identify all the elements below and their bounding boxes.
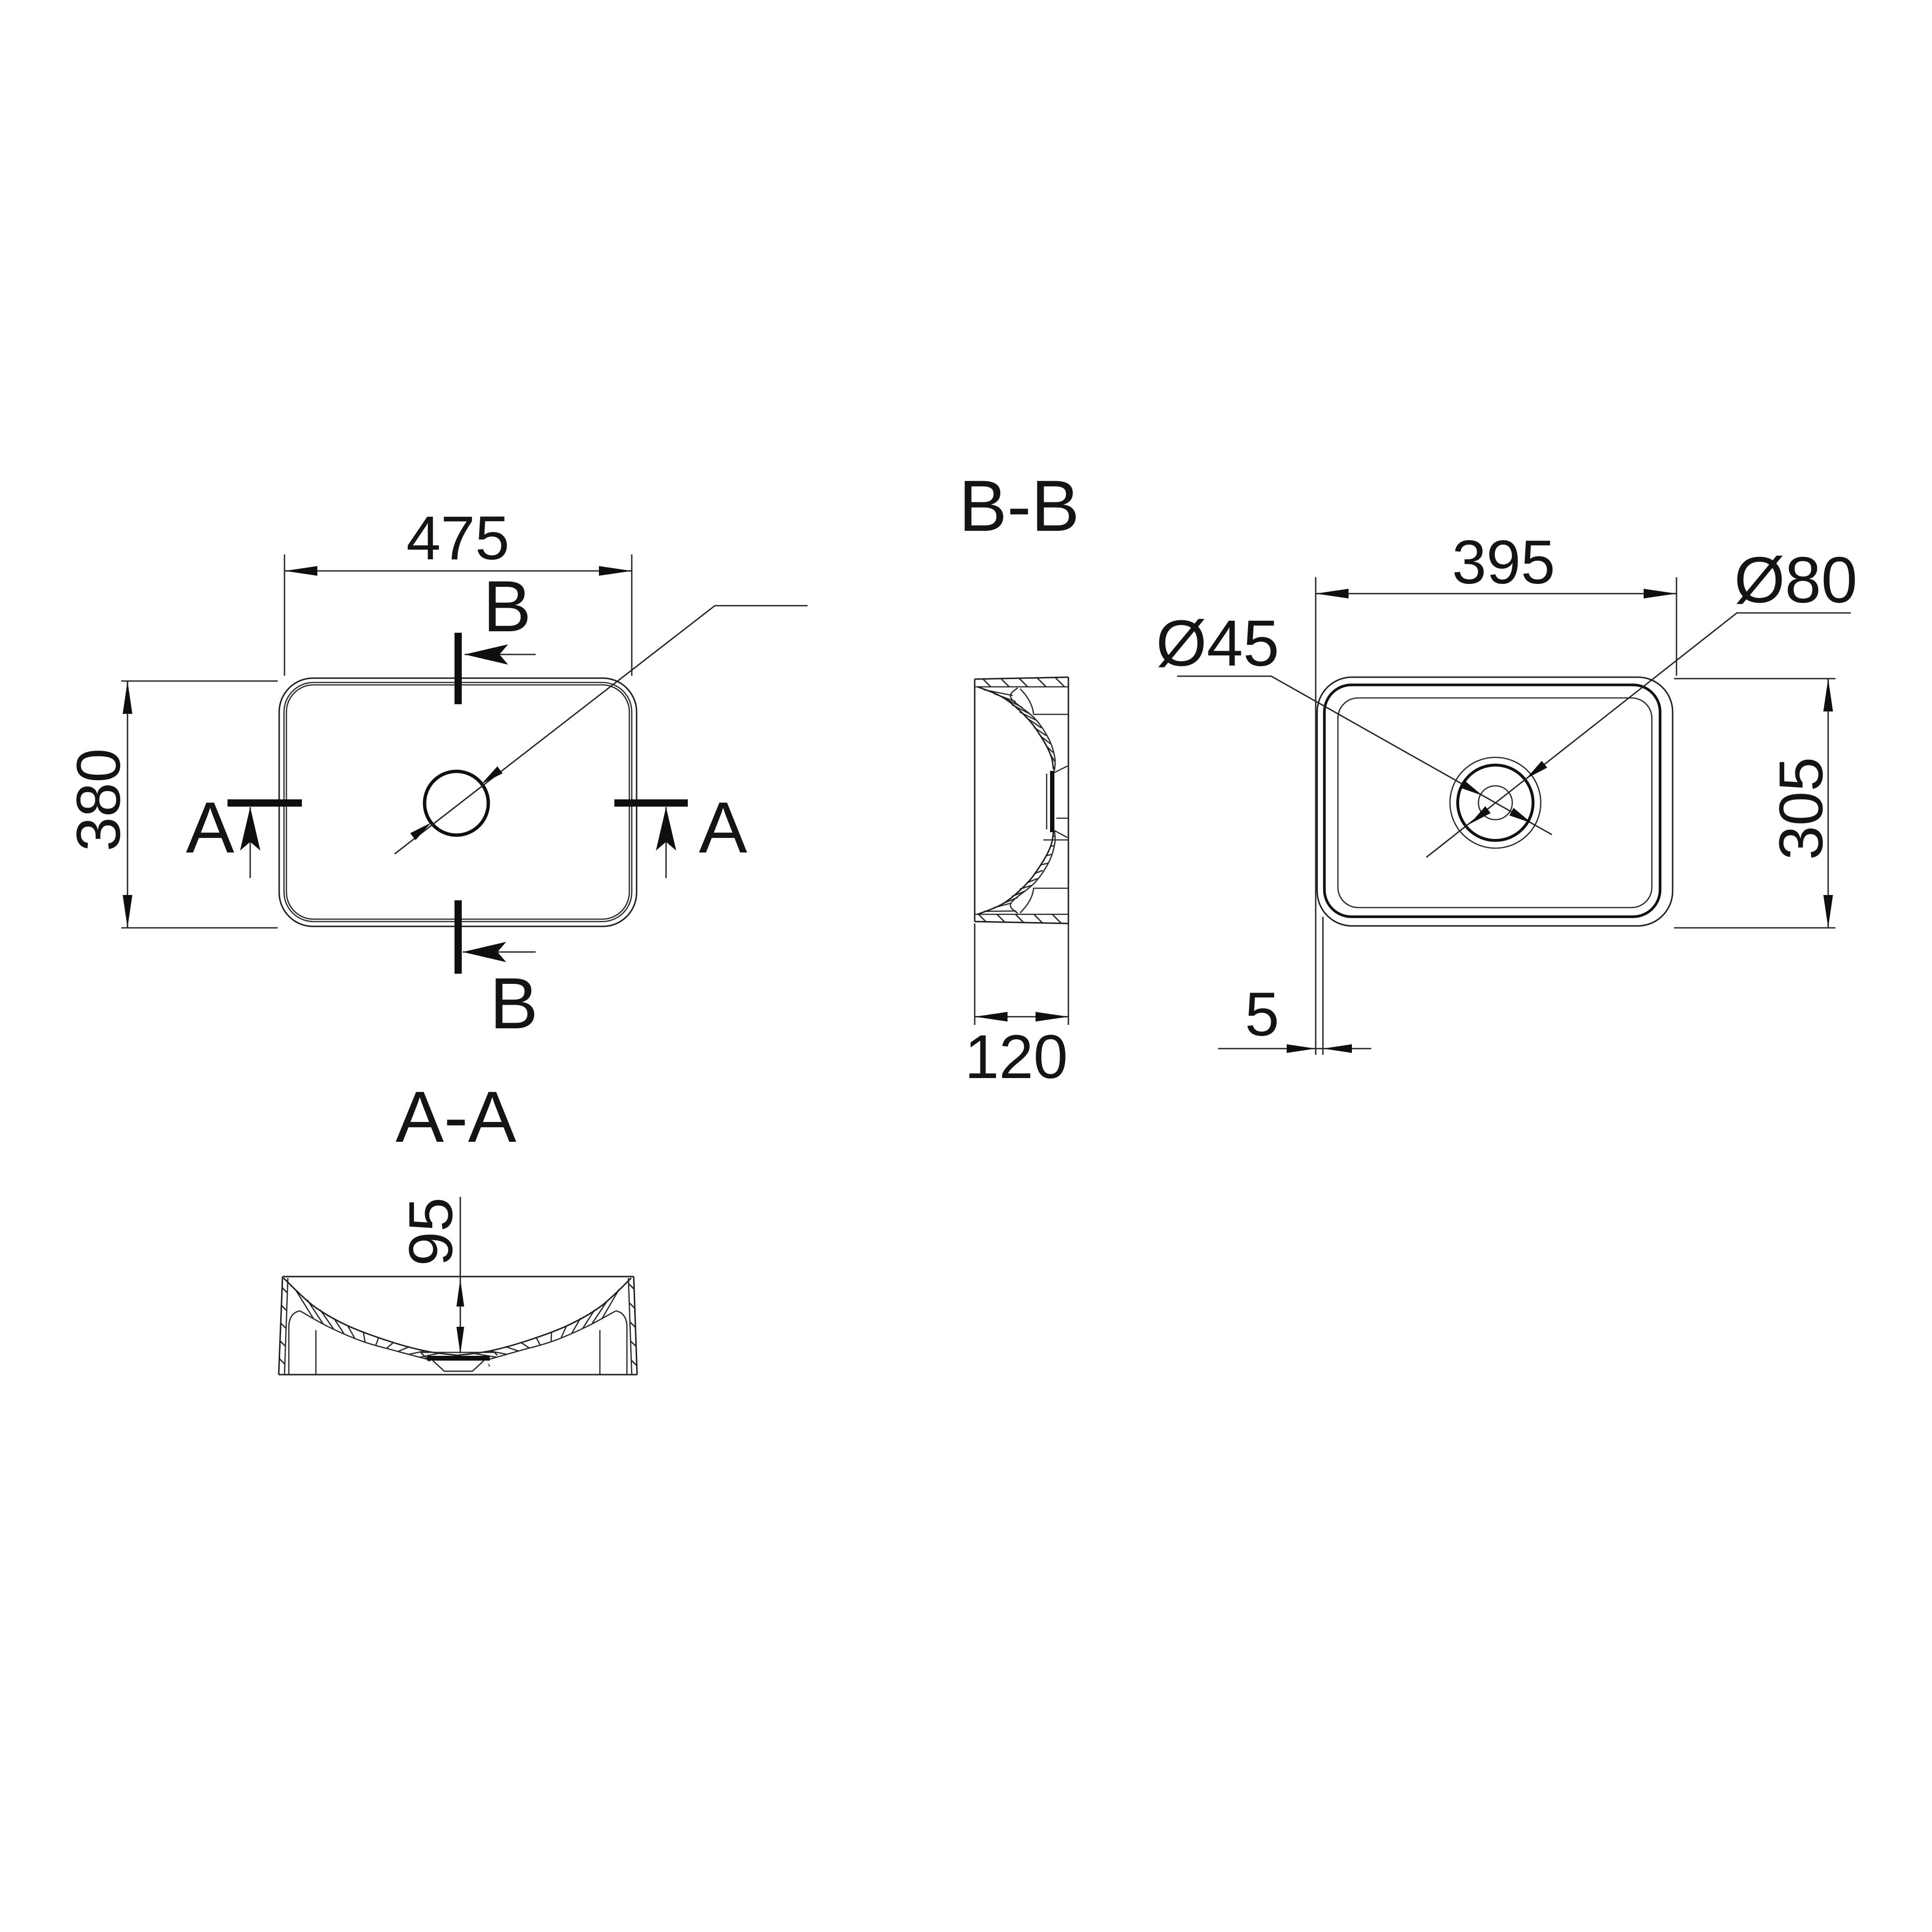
dim 395 arrow right [1644,589,1676,598]
B-B drain shelf line upper [1056,818,1068,819]
dim 380 extension line top [121,681,278,682]
dim 380 arrow top [123,681,132,714]
leader D80 arrow 1 [1526,761,1547,779]
section A-A bottom view [279,1076,637,1375]
B-B drain recess line [1046,774,1048,829]
section cut mark B top arrow [465,644,536,665]
dim 380 extension line bottom [121,927,278,929]
dim 475 arrow left [284,566,317,576]
svg-text:A: A [699,787,747,868]
A-A foot step right [616,1311,627,1375]
B-B upper bowl wall rungs [984,690,1055,771]
A-A left wall inner line [284,1278,288,1375]
A-A drain taper trapezoid [433,1361,484,1371]
basin inner rim line 2 [286,685,629,919]
section cut mark A right arrow [656,807,676,878]
B-B bottom band inner edge [975,914,1068,915]
section cut mark B bottom bar [455,900,462,974]
dim 120 extension right [1068,923,1069,1025]
A-A right outer edge [634,1277,637,1375]
A-A bottom edge [279,1374,637,1376]
dim 120 line [975,1016,1068,1018]
svg-text:395: 395 [1452,528,1555,597]
leader D45 arrow 2 [1509,808,1532,823]
svg-text:B: B [483,566,531,647]
svg-text:380: 380 [64,748,133,852]
dim 305 line [1828,679,1829,928]
dim 95 arrow down [456,1327,464,1354]
drain inner circle [1478,786,1512,820]
dim 95 reference line [460,1197,461,1352]
A-A left outer edge [279,1277,283,1375]
drain leader arrow lower [410,823,431,840]
A-A top edge [283,1276,634,1278]
A-A drain hatch left [412,1351,430,1369]
svg-text:A-A: A-A [396,1076,516,1157]
drain thick circle [1458,765,1533,840]
B-B drain slant top [1054,766,1067,773]
B-B right outer edge [1068,677,1069,923]
svg-text:305: 305 [1767,757,1836,860]
section cut mark A right bar [614,799,688,807]
A-A right wall hatched band [628,1277,637,1375]
B-B left outer edge [974,679,976,922]
rim offset line below corner [1322,917,1324,1055]
dim 305 arrow bottom [1823,895,1833,928]
A-A drain recess top line [420,1352,497,1353]
svg-text:B-B: B-B [959,465,1080,546]
svg-text:Ø80: Ø80 [1734,543,1857,616]
dim 120 arrow left [975,1012,1008,1022]
dim 395 line [1316,593,1676,595]
A-A right wall inner line [628,1278,632,1375]
dim 305 arrow top [1823,679,1833,711]
dim 305 extension bottom [1674,927,1835,929]
right top view of basin with drain [1156,528,1857,1055]
svg-text:475: 475 [406,504,510,573]
B-B bottom rim hatched band [975,914,1068,923]
svg-text:Ø45: Ø45 [1156,607,1279,680]
right view rim outer thick rounded rect [1324,685,1660,917]
section cut mark A left bar [227,799,302,807]
dim 95 arrow up [456,1279,464,1307]
svg-text:95: 95 [397,1197,466,1266]
section cut mark A left arrow [240,807,260,878]
dim 5 arrow left [1287,1044,1316,1053]
right view rim inner rounded rect [1338,698,1652,908]
B-B drain slant bottom [1054,830,1067,838]
dim 475 extension line right [631,554,633,676]
basin outer rim rounded rect [279,678,637,926]
B-B top band inner edge [975,686,1068,688]
B-B bowl inner curve upper [1010,688,1055,771]
top plan view of basin [64,504,808,1044]
dim 380 arrow bottom [123,895,132,928]
drain leader arrow upper [482,767,503,784]
dim 120 arrow right [1036,1012,1068,1022]
dim 475 line [284,570,632,572]
A-A bowl wall rungs [295,1289,619,1357]
dim 120 extension left [974,923,976,1025]
dim 395 extension left long line [1315,577,1317,1055]
leader D80 arrow 2 [1470,806,1491,824]
A-A foot step left [289,1311,300,1375]
leader D45 arrow 1 [1460,780,1482,796]
leader line D45 [1177,676,1552,835]
B-B bowl inner curve lower [1010,830,1055,913]
dim 395 arrow left [1316,589,1349,598]
dim 305 extension top [1674,678,1835,680]
A-A drain flange thick bar [427,1356,490,1361]
leader line D80 [1426,613,1851,857]
B-B drain flange thick bar [1050,771,1054,832]
A-A bowl inner curve right [490,1311,616,1359]
dim 5 arrow right [1323,1044,1352,1053]
drain leader line [395,606,808,854]
B-B drain shelf line lower [1043,839,1068,841]
B-B bottom edge [975,922,1068,923]
right view outer rounded rect [1317,677,1673,926]
B-B bowl outer curve lower [978,832,1053,914]
B-B lower bowl wall rungs [984,836,1054,911]
section cut mark B bottom arrow [463,942,536,962]
B-B top rim hatched band [975,677,1068,687]
dim 5 line [1218,1048,1371,1050]
svg-text:120: 120 [965,1023,1068,1092]
section B-B side view [959,465,1080,1092]
A-A bowl tangent line right [599,1330,601,1375]
dim 475 extension line left [284,554,285,676]
dim 395 extension right [1676,577,1677,676]
dim 380 line [127,681,128,928]
section cut mark B top bar [455,633,462,704]
svg-text:5: 5 [1245,980,1279,1049]
A-A drain hatch right [487,1351,505,1369]
A-A bowl inner curve left [300,1311,427,1359]
B-B rim inner shelf curve top [1020,689,1068,714]
B-B top edge [975,677,1068,679]
svg-text:B: B [490,963,538,1044]
basin inner rim line 1 [284,682,632,922]
A-A left wall hatched band [279,1277,288,1375]
svg-text:A: A [186,787,234,868]
drain hole circle [425,771,488,835]
A-A drain trapezoid bottom [444,1371,472,1372]
dim 475 arrow right [599,566,632,576]
B-B rim inner shelf curve bottom [1020,888,1068,913]
A-A bowl tangent line left [315,1330,317,1375]
B-B bowl outer curve upper [978,687,1053,769]
drain outer circle [1450,757,1541,848]
A-A bowl outer curve [284,1278,631,1355]
